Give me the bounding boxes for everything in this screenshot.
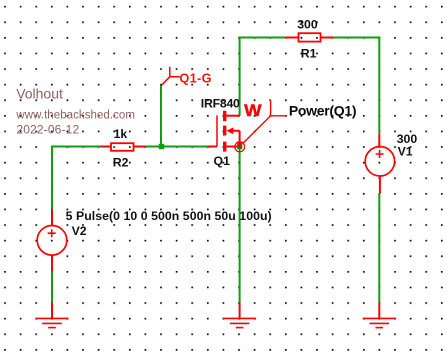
svg-text:5 Pulse(0 10 0 500n 500n 50u 1: 5 Pulse(0 10 0 500n 500n 50u 100u) [66, 209, 272, 223]
current probe circle marker [235, 142, 245, 152]
resistor R1 [286, 33, 333, 41]
source line [225, 146, 240, 148]
node: source junction square [237, 144, 242, 149]
wire: V2 bottom to ground [51, 271, 53, 303]
probe arrow head [236, 142, 243, 149]
svg-text:Power(Q1): Power(Q1) [289, 103, 356, 119]
resistor R2 [101, 143, 146, 151]
gate bar [216, 115, 218, 146]
body line [231, 131, 240, 147]
svg-text:1k: 1k [114, 127, 128, 141]
svg-text:R1: R1 [301, 47, 317, 61]
svg-text:300: 300 [297, 17, 318, 31]
wire: R2 right pin to Q1 gate [145, 146, 208, 148]
wire: source rail down to ground [239, 147, 241, 303]
svg-text:IRF840: IRF840 [201, 97, 240, 111]
wire: V1 rail down [378, 37, 380, 135]
gate lead [208, 146, 217, 148]
node junction square [159, 144, 164, 149]
ground (V2) [36, 303, 69, 328]
svg-text:300: 300 [397, 132, 418, 146]
channel bar bottom [223, 142, 226, 152]
wire: V1 bottom to ground [378, 194, 380, 303]
svg-text:Q1: Q1 [214, 154, 231, 168]
svg-text:R2: R2 [113, 156, 129, 170]
voltage source V1 [365, 134, 394, 194]
svg-text:V2: V2 [72, 224, 87, 238]
body arrow head [226, 127, 233, 134]
power probe flag [243, 100, 287, 143]
wire: top rail to R1 left [239, 37, 286, 39]
transistor Q1 (NMOS) [208, 111, 240, 152]
svg-text:2022-06-12: 2022-06-12 [16, 123, 79, 137]
drain line [225, 115, 240, 117]
wire: drain rail up [239, 38, 241, 116]
ground (Q1 source) [223, 303, 256, 328]
svg-text:Q1-G: Q1-G [179, 70, 212, 85]
wire: R1 right to V1 rail [333, 37, 380, 39]
wire: left rail horizontal to R2 [52, 146, 101, 148]
svg-text:www.thebackshed.com: www.thebackshed.com [15, 110, 135, 122]
svg-text:V1: V1 [398, 145, 413, 159]
wire: left rail vertical down to V2 [51, 146, 53, 210]
net flag Q1-G [161, 67, 180, 86]
svg-text:W: W [244, 101, 262, 120]
channel bar top [223, 111, 226, 121]
wire: junction up to Q1-G flag [160, 85, 162, 148]
svg-text:Volhout: Volhout [16, 85, 63, 101]
voltage source V2 [37, 209, 67, 271]
ground (V1) [363, 303, 396, 328]
channel bar middle [223, 126, 226, 136]
